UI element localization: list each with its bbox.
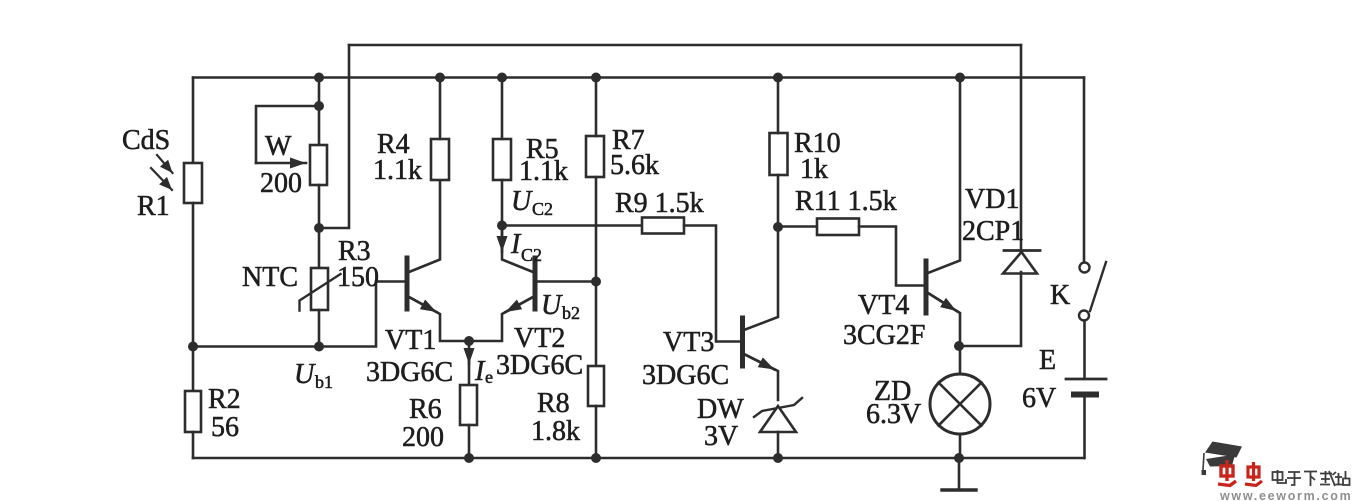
wire: W branch from supply rail <box>318 78 321 146</box>
wire: R2 bottom to bottom rail <box>192 432 195 458</box>
svg-text:U: U <box>541 290 563 321</box>
junction: NTC bottom on Ub1 line <box>314 342 324 352</box>
wire: upper top rail from W/NTC junction riser to VD1 <box>349 44 1021 47</box>
wire: riser from upper rail down to node below W <box>319 45 349 228</box>
transistor VT2 emitter <box>469 297 533 341</box>
svg-text:6.3V: 6.3V <box>866 399 921 430</box>
wire: R1 bottom to Ub1 node <box>192 203 195 347</box>
junction: Ub2 node <box>591 277 601 287</box>
svg-text:3DG6C: 3DG6C <box>366 357 453 388</box>
junction: emitter tie point <box>464 336 474 346</box>
wire: switch to battery <box>1083 321 1086 379</box>
wire: R7 bottom to Ub2 node and on to R8 <box>595 177 598 366</box>
switch K upper contact <box>1080 263 1090 273</box>
junction: R7 on supply rail <box>591 73 601 83</box>
wire: IC2 current arrow on VT2 collector <box>501 228 504 252</box>
svg-text:VT3: VT3 <box>663 327 714 358</box>
resistor R4 <box>431 139 449 180</box>
svg-text:U: U <box>511 186 533 217</box>
svg-text:e: e <box>485 367 493 387</box>
svg-text:3CG2F: 3CG2F <box>843 320 925 351</box>
wire: DW anode to bottom rail <box>777 432 780 458</box>
svg-text:C2: C2 <box>532 199 553 219</box>
wire: R5 bottom to UC2 node <box>501 180 504 226</box>
svg-text:VT1: VT1 <box>385 325 436 356</box>
svg-text:R1: R1 <box>137 191 170 222</box>
transistor VT3 emitter <box>744 354 778 400</box>
transistor VT2 base bar <box>533 258 538 309</box>
wire: left column R1/R2 branch <box>192 78 195 164</box>
svg-text:3DG6C: 3DG6C <box>496 350 583 381</box>
wire: VD1 anode down and left to lamp node <box>959 272 1021 346</box>
svg-text:K: K <box>1050 280 1070 311</box>
resistor R8 <box>588 366 604 406</box>
svg-text:R2: R2 <box>208 384 241 415</box>
transistor VT4 emitter <box>928 293 960 346</box>
diode VD1 triangle <box>1003 252 1037 274</box>
svg-text:E: E <box>1039 345 1056 376</box>
wire: R6 bottom to bottom rail <box>468 425 471 458</box>
junction: VT4 collector on supply rail <box>955 73 965 83</box>
resistor R2 <box>185 391 201 432</box>
junction: R5 on supply rail <box>497 73 507 83</box>
svg-text:1k: 1k <box>800 154 828 185</box>
junction: UC2 node <box>497 221 507 231</box>
wire: R9 to VT3 base <box>684 226 740 342</box>
transistor VT3 collector <box>744 227 778 330</box>
wire: lamp bottom to bottom rail <box>959 434 962 458</box>
junction: R4 on supply rail <box>435 73 445 83</box>
wire: R7 top to supply rail <box>595 78 598 137</box>
junction: W top on supply rail <box>314 73 324 83</box>
svg-text:C2: C2 <box>521 245 542 265</box>
svg-text:b2: b2 <box>562 303 580 323</box>
wire: R5 top to supply rail <box>501 78 504 140</box>
thermistor R3 diagonal stroke <box>300 274 341 311</box>
svg-text:6V: 6V <box>1022 383 1056 414</box>
svg-text:U: U <box>294 359 316 390</box>
transistor VT1 emitter <box>409 297 469 341</box>
watermark red character chong 1 <box>1218 460 1236 486</box>
svg-text:R6: R6 <box>409 394 442 425</box>
wire: W wiper arrow <box>256 162 306 165</box>
wire: R10 top to supply rail <box>777 78 780 134</box>
battery E positive plate <box>1066 378 1106 381</box>
wire: lower top rail (supply rail) <box>193 76 1084 79</box>
transistor VT2 emitter arrow <box>506 297 534 312</box>
svg-text:NTC: NTC <box>242 262 298 293</box>
resistor R5 <box>493 139 511 180</box>
wire: NTC bottom to Ub1 line <box>318 310 321 347</box>
wire: R4 top to supply rail <box>439 78 442 140</box>
svg-text:R8: R8 <box>537 388 570 419</box>
resistor R10 <box>770 133 788 175</box>
transistor VT1 emitter arrow <box>409 297 437 312</box>
wire: VD1 branch from upper rail <box>1020 45 1023 252</box>
switch K blade <box>1090 262 1106 311</box>
thermistor R3 NTC body <box>311 268 328 310</box>
transistor VT2 collector <box>502 226 533 273</box>
switch K lower contact <box>1079 311 1089 321</box>
svg-text:R9 1.5k: R9 1.5k <box>615 188 704 219</box>
CdS light arrow 2 <box>151 168 172 190</box>
junction: lamp on bottom rail <box>954 453 964 463</box>
ground stub below lamp node <box>958 458 961 490</box>
junction: W wiper loop tap <box>314 101 324 111</box>
wire: node to R11 <box>778 225 817 228</box>
svg-text:2CP1: 2CP1 <box>962 216 1024 247</box>
junction: R6 on bottom rail <box>464 453 474 463</box>
transistor VT1 collector <box>409 180 440 272</box>
wire: R10 bottom to node <box>777 175 780 227</box>
lamp ZD circle <box>930 374 990 434</box>
svg-text:VT4: VT4 <box>858 290 909 321</box>
battery E negative plate <box>1074 392 1096 398</box>
svg-text:200: 200 <box>402 422 444 453</box>
watermark red character chong 2 <box>1245 462 1262 486</box>
wire: switch branch from supply rail <box>1083 78 1086 263</box>
watermark text dianzi xiazaizhan <box>1273 470 1350 486</box>
wire: battery to bottom rail <box>1083 397 1086 458</box>
svg-text:150: 150 <box>337 262 379 293</box>
wire: node below W to NTC <box>318 228 321 268</box>
zener diode DW cathode bar <box>754 398 802 417</box>
diode VD1 cathode bar <box>1004 249 1040 252</box>
transistor VT4 base bar <box>924 261 929 313</box>
svg-text:56: 56 <box>211 412 239 443</box>
transistor VT1 base bar <box>405 258 410 309</box>
svg-text:b1: b1 <box>315 372 333 392</box>
junction: R10 on supply rail <box>773 73 783 83</box>
svg-text:VD1: VD1 <box>965 184 1019 215</box>
wire: W bottom to node <box>318 185 321 228</box>
junction: Ub1 at R1/R2 <box>188 342 198 352</box>
junction: R8 on bottom rail <box>591 453 601 463</box>
watermark logo graduation cap <box>1202 442 1243 476</box>
transistor VT4 emitter arrow <box>928 293 957 311</box>
svg-text:1.8k: 1.8k <box>531 416 580 447</box>
transistor VT4 collector <box>928 78 960 274</box>
potentiometer W body <box>310 145 327 185</box>
junction: DW on bottom rail <box>773 453 783 463</box>
svg-text:www.eeworm.com: www.eeworm.com <box>1219 489 1352 501</box>
resistor R1 (CdS photoresistor) <box>184 163 202 203</box>
svg-text:W: W <box>265 131 292 162</box>
svg-text:R11 1.5k: R11 1.5k <box>795 186 897 217</box>
wire: Ub1 horizontal line to VT1 base riser <box>193 282 404 347</box>
svg-text:1.1k: 1.1k <box>373 155 422 186</box>
wire: bottom rail (ground/return) <box>193 457 1084 460</box>
svg-text:3V: 3V <box>704 421 738 452</box>
transistor VT3 emitter arrow <box>744 354 775 370</box>
wire: Ie arrow shaft to R6 <box>468 355 471 385</box>
junction: VT4 emitter / lamp / VD1 node <box>954 341 964 351</box>
wire: UC2 node to R9 <box>502 224 642 227</box>
resistor R7 <box>586 136 604 177</box>
svg-text:CdS: CdS <box>122 125 170 156</box>
junction: node below W <box>314 223 324 233</box>
transistor VT3 base bar <box>740 318 745 366</box>
zener diode DW triangle <box>760 406 796 432</box>
wire: VT2 base lead to Ub2 node <box>535 280 596 283</box>
wire: emitter junction down with Ie arrow <box>468 343 471 364</box>
resistor R11 (horizontal) <box>817 219 859 236</box>
wire: R8 bottom to bottom rail <box>595 406 598 458</box>
lamp ZD cross second <box>939 383 982 426</box>
wire: lamp node to lamp <box>959 346 962 374</box>
svg-text:1.1k: 1.1k <box>519 156 568 187</box>
svg-text:3DG6C: 3DG6C <box>642 360 729 391</box>
junction: R10/R11/VT3 collector node <box>773 222 783 232</box>
wire: Ub1 node down to R2 <box>192 347 195 392</box>
wire: W wiper loop <box>256 106 319 163</box>
svg-text:200: 200 <box>260 168 302 199</box>
ground bar <box>942 488 976 491</box>
lamp ZD cross <box>939 383 982 426</box>
resistor R9 (horizontal) <box>642 218 684 234</box>
resistor R6 <box>460 385 477 425</box>
CdS light arrow 1 <box>157 155 173 173</box>
wire: R11 to VT4 base <box>859 227 924 286</box>
svg-text:5.6k: 5.6k <box>610 150 659 181</box>
